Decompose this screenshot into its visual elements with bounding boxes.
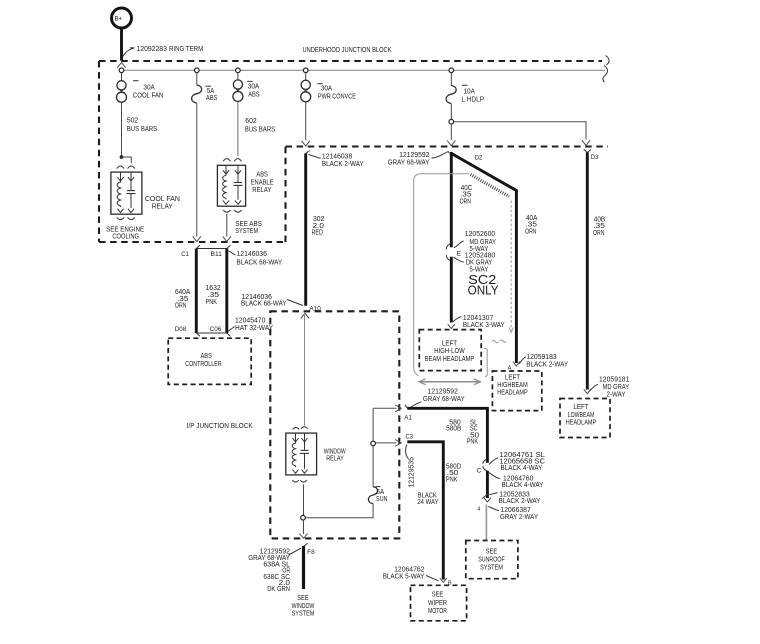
wire 502 bus to relay: [121, 102, 123, 155]
svg-text:4: 4: [477, 506, 480, 512]
wire branch to relay second pin: [122, 157, 132, 163]
wire 638A DK GRN: [302, 546, 305, 589]
svg-text:B+: B+: [115, 17, 123, 23]
arrow into lowbeam headlamp (40B): [584, 389, 591, 394]
svg-text:BLACK 68-WAY: BLACK 68-WAY: [241, 301, 287, 308]
connector C break: [477, 459, 488, 474]
wire L HDLP to node: [450, 104, 452, 120]
svg-text:5A: 5A: [207, 88, 215, 95]
label BLACK 24 WAY: [417, 492, 438, 505]
svg-text:PWR CONVCE: PWR CONVCE: [318, 93, 356, 100]
arrow entering I/P junction block A10: [301, 313, 309, 318]
svg-text:COOLING: COOLING: [112, 233, 139, 240]
hatch band SC2 harness: [471, 175, 510, 197]
svg-text:12064762: 12064762: [394, 567, 424, 574]
svg-text:RELAY: RELAY: [152, 201, 173, 210]
svg-text:GRAY 68-WAY: GRAY 68-WAY: [423, 396, 465, 403]
svg-text:30A: 30A: [321, 85, 333, 92]
svg-text:12052600: 12052600: [465, 231, 495, 238]
svg-text:302: 302: [313, 216, 324, 223]
arrow into junction block from B+: [117, 63, 125, 68]
svg-text:12059183: 12059183: [526, 354, 556, 361]
label 12129592 GRAY 68-WAY (D2): [388, 152, 449, 167]
svg-text:30A: 30A: [143, 85, 155, 92]
svg-text:B11: B11: [211, 251, 223, 258]
label 640A .35 ORN: [175, 289, 190, 310]
fuse 30A PWR CONVCE: [301, 73, 356, 102]
svg-text:C1: C1: [181, 251, 189, 258]
svg-text:SYSTEM: SYSTEM: [235, 228, 258, 235]
wire breaker to node: [372, 446, 374, 487]
wire 5A ABS down to C1: [196, 103, 198, 237]
svg-text:D2: D2: [475, 154, 483, 161]
wire ABS relay pin to B11: [226, 214, 228, 237]
svg-text:LEFT: LEFT: [442, 340, 458, 347]
SC2 thin loop top: [414, 174, 470, 376]
svg-text:SEE: SEE: [486, 549, 498, 556]
svg-text:SEE ENGINE: SEE ENGINE: [106, 226, 144, 233]
label SC2 ONLY: [468, 273, 500, 298]
svg-text:MOTOR: MOTOR: [428, 608, 447, 615]
wire node to sun breaker: [305, 504, 373, 518]
label SEE WINDOW SYSTEM: [292, 595, 315, 618]
node cool fan relay branch: [120, 155, 124, 159]
svg-text:SEE ABS: SEE ABS: [235, 221, 262, 228]
wire 40C lower: [450, 257, 453, 323]
node bus tap L hdlp: [449, 68, 454, 73]
svg-text:COOL FAN: COOL FAN: [133, 92, 163, 99]
svg-text:12129592: 12129592: [428, 388, 458, 395]
svg-text:GRAY 2-WAY: GRAY 2-WAY: [500, 514, 538, 521]
svg-text:ABS: ABS: [248, 91, 260, 98]
circuit breaker 5A ABS: [192, 73, 218, 103]
label 12129592 GRAY 68-WAY (A1): [410, 388, 465, 407]
labels 12052600 MD GRAY 5-WAY / 12052480 DK GRAY 5-WAY: [454, 231, 497, 273]
label 12059181 MD GRAY 2-WAY: [589, 377, 630, 399]
label 1632 .35 PNK: [206, 285, 221, 306]
arrow into high-low beam headlamp: [448, 324, 455, 329]
arrow into wiper motor: [440, 578, 447, 582]
svg-text:BLACK 2-WAY: BLACK 2-WAY: [526, 362, 568, 369]
svg-text:HIGHBEAM: HIGHBEAM: [497, 382, 528, 389]
svg-text:D3: D3: [591, 154, 599, 161]
SEE SUNROOF SYSTEM box: [466, 541, 518, 579]
svg-text:PNK: PNK: [206, 299, 218, 306]
node bus tap 5A abs: [195, 68, 200, 73]
label 12146036 BLACK 68-WAY (to A10 wire): [241, 294, 303, 307]
svg-text:E: E: [457, 251, 462, 258]
label 12064762 BLACK 5-WAY: [383, 567, 439, 581]
LEFT HIGHBEAM HEADLAMP box: [492, 371, 541, 411]
svg-text:12045470: 12045470: [235, 318, 265, 325]
svg-text:C: C: [477, 467, 482, 474]
svg-text:I/P JUNCTION BLOCK: I/P JUNCTION BLOCK: [187, 423, 253, 430]
relay WINDOW RELAY: [286, 433, 317, 475]
node headlamp feed split: [449, 119, 454, 124]
svg-text:580B: 580B: [446, 426, 461, 433]
relay COOL FAN RELAY: [111, 172, 142, 214]
I/P junction block dashed outline: [270, 311, 399, 538]
label 580D .50 PNK: [446, 463, 461, 483]
labels 12064760 BLACK 4-WAY: [489, 473, 544, 490]
arrow exit I/P block F8: [299, 534, 307, 539]
svg-text:12059181: 12059181: [599, 377, 629, 384]
svg-text:CONTROLLER: CONTROLLER: [185, 361, 221, 368]
fuse 30A COOL FAN: [117, 73, 164, 103]
svg-text:ENABLE: ENABLE: [251, 179, 274, 186]
label 580 SL 580B SC .50 PNK: [446, 419, 479, 445]
wire 640A to ABS controller: [195, 249, 198, 334]
label 12059183 BLACK 2-WAY: [519, 354, 569, 368]
wire to 4-way junction: [486, 471, 489, 498]
svg-text:BUS BARS: BUS BARS: [245, 127, 276, 134]
fuse 30A ABS: [233, 73, 260, 102]
svg-text:12092283: 12092283: [137, 46, 167, 53]
relay ABS ENABLE RELAY: [217, 165, 245, 206]
label 12146036 BLACK 68-WAY (top): [228, 251, 282, 267]
label 502 BUS BARS: [127, 118, 158, 134]
break marks SC2: [492, 340, 506, 343]
wire 602 bus to ABS relay: [237, 102, 239, 157]
svg-text:SEE: SEE: [297, 595, 309, 602]
label COOL FAN RELAY: [145, 194, 180, 211]
node bus tap 30A abs: [236, 68, 241, 73]
svg-text:A1: A1: [404, 415, 412, 422]
svg-text:12041307: 12041307: [463, 315, 493, 322]
svg-text:ORN: ORN: [525, 228, 536, 235]
svg-text:30A: 30A: [248, 84, 260, 91]
node window/sun split: [301, 515, 306, 520]
svg-text:10A: 10A: [464, 88, 476, 95]
relay cavity arcs bottom (abs enable): [223, 210, 241, 212]
svg-text:BUS BARS: BUS BARS: [127, 126, 158, 133]
SC2 gray dashed drop: [509, 201, 513, 333]
connector bracket D08-C06: [175, 326, 231, 336]
svg-text:WINDOW: WINDOW: [324, 448, 346, 455]
svg-text:5A: 5A: [377, 489, 385, 496]
circuit breaker 5A SUN: [368, 487, 387, 504]
svg-text:BLACK 4-WAY: BLACK 4-WAY: [502, 482, 544, 489]
svg-text:SEE: SEE: [432, 592, 444, 599]
svg-text:WIPER: WIPER: [428, 600, 447, 607]
battery terminal B+: [112, 8, 132, 28]
svg-text:UNDERHOOD JUNCTION BLOCK: UNDERHOOD JUNCTION BLOCK: [303, 47, 392, 54]
tick + leader at F8 wire: [289, 543, 308, 555]
label 302 2.0 RED: [312, 216, 325, 237]
svg-text:SYSTEM: SYSTEM: [480, 564, 503, 571]
wire window relay to node: [303, 485, 305, 516]
svg-text:HEADLAMP: HEADLAMP: [566, 420, 597, 427]
wire exit F8: [303, 520, 305, 534]
svg-text:SUN: SUN: [376, 496, 387, 503]
relay cavity arcs top (cool fan): [117, 166, 135, 169]
arrow into highbeam headlamp (40A): [513, 362, 520, 367]
arrow exit junction block D3: [582, 140, 590, 145]
label 40A .35 ORN: [525, 215, 538, 235]
svg-text:602: 602: [245, 118, 256, 125]
wire 40C upper (D2 drop): [450, 152, 453, 247]
wire 580D PNK to wiper motor: [407, 442, 443, 580]
svg-text:LEFT: LEFT: [573, 404, 589, 411]
label 40B .35 ORN: [593, 217, 605, 237]
svg-text:BLACK 4-WAY: BLACK 4-WAY: [501, 465, 543, 472]
svg-text:RING TERM: RING TERM: [169, 46, 203, 53]
label 12041307 BLACK 3-WAY: [453, 315, 505, 329]
label 12146038 BLACK 2-WAY: [306, 151, 364, 169]
svg-text:HIGH-LOW: HIGH-LOW: [434, 348, 465, 355]
svg-text:BLACK 68-WAY: BLACK 68-WAY: [237, 260, 283, 267]
connector E break: [446, 244, 462, 261]
wire pwr convce down inside block: [305, 103, 307, 141]
svg-text:BLACK 3-WAY: BLACK 3-WAY: [463, 322, 505, 329]
svg-text:SUNROOF: SUNROOF: [478, 557, 505, 564]
label 12092283 RING TERM: [123, 46, 204, 57]
svg-text:DK GRN: DK GRN: [267, 586, 290, 593]
wire B+ feed: [120, 29, 123, 61]
svg-text:C3: C3: [405, 433, 413, 440]
LEFT HIGH-LOW BEAM HEADLAMP box: [419, 330, 481, 371]
arrow exit at inner border (302 red): [302, 141, 310, 146]
svg-text:PNK: PNK: [446, 477, 458, 484]
arrow exit junction block D2: [447, 141, 455, 146]
svg-text:WINDOW: WINDOW: [292, 603, 315, 610]
underhood junction block dashed outline: [99, 61, 608, 242]
svg-text:GRAY 68-WAY: GRAY 68-WAY: [388, 159, 430, 166]
ABS CONTROLLER box: [168, 338, 251, 384]
wire 40B (D3 drop): [586, 152, 589, 389]
label 602 BUS BARS: [245, 118, 276, 133]
svg-text:F8: F8: [307, 549, 315, 556]
SC2 double arrow under headlamp box: [419, 379, 481, 385]
svg-text:RED: RED: [312, 230, 323, 237]
relay cavity arcs bottom (window): [292, 480, 306, 482]
wire 302 2.0 RED: [304, 153, 307, 305]
relay cavity arcs top (window): [293, 427, 308, 430]
wire node up to A1: [372, 408, 374, 441]
connector curl 12129535: [406, 445, 408, 459]
connector bracket C1-B11: [181, 245, 230, 258]
svg-text:502: 502: [127, 118, 138, 125]
node bus tap cool fan: [119, 68, 124, 73]
svg-text:ORN: ORN: [175, 303, 186, 310]
tick at D3 top: [584, 149, 591, 152]
svg-text:12129535: 12129535: [409, 457, 416, 487]
tick at A1 wire start: [405, 405, 408, 408]
svg-text:BLACK 2-WAY: BLACK 2-WAY: [322, 161, 364, 168]
svg-text:BEAM HEADLAMP: BEAM HEADLAMP: [425, 356, 475, 363]
label SEE ABS SYSTEM: [235, 221, 262, 235]
relay cavity arcs bottom (cool fan): [117, 217, 135, 219]
svg-text:D08: D08: [175, 326, 187, 333]
SEE WIPER MOTOR box: [411, 585, 467, 621]
svg-text:12129592: 12129592: [399, 152, 429, 159]
svg-text:L HDLP: L HDLP: [461, 96, 484, 103]
label SEE ENGINE COOLING: [106, 226, 144, 240]
labels 12052833 BLACK 2-WAY: [482, 491, 541, 504]
svg-text:12052480: 12052480: [465, 253, 495, 260]
svg-text:MD GRAY: MD GRAY: [603, 384, 630, 391]
svg-text:12146038: 12146038: [322, 154, 352, 161]
svg-text:2-WAY: 2-WAY: [607, 391, 626, 398]
arrow at 12052833 junction: [484, 498, 491, 502]
arrow exit I/P block at A1: [373, 405, 401, 412]
SC2 gray side link: [484, 348, 487, 376]
wire 580 PNK to connector C: [407, 408, 487, 462]
arrow exit I/P block at C3: [376, 440, 402, 447]
labels 12066387 GRAY 2-WAY: [488, 507, 538, 521]
svg-text:12146036: 12146036: [237, 251, 267, 258]
wire 1632 to ABS controller: [225, 249, 228, 334]
label ABS ENABLE RELAY: [251, 171, 274, 194]
label 12045470 HAT 32-WAY: [228, 318, 273, 333]
svg-text:HAT 32-WAY: HAT 32-WAY: [235, 325, 273, 332]
relay cavity arcs top (abs enable): [223, 159, 241, 162]
svg-text:BLACK 5-WAY: BLACK 5-WAY: [383, 574, 425, 581]
svg-text:LEFT: LEFT: [505, 374, 521, 381]
svg-text:ABS: ABS: [201, 353, 213, 360]
labels 12064761 SL 12065658 SC BLACK 4-WAY: [489, 452, 545, 472]
svg-text:SYSTEM: SYSTEM: [292, 611, 315, 618]
wire 40A diagonal branch: [450, 153, 516, 363]
circuit breaker 10A L HDLP: [446, 73, 484, 104]
svg-text:LOWBEAM: LOWBEAM: [568, 412, 595, 419]
svg-text:ABS: ABS: [256, 171, 268, 178]
svg-text:PNK: PNK: [467, 439, 479, 446]
svg-text:ORN: ORN: [593, 230, 604, 237]
svg-text:ORN: ORN: [460, 198, 471, 205]
node A1/C3 split: [371, 441, 376, 446]
node bus tap pwr convce: [303, 68, 308, 73]
svg-text:RELAY: RELAY: [326, 456, 344, 463]
wire node down to D2 exit: [450, 124, 452, 140]
wire node across to D3 drop: [454, 122, 586, 140]
bus bar: [122, 69, 606, 71]
svg-text:C06: C06: [210, 326, 222, 333]
wire A10 feed inside I/P block: [304, 312, 306, 426]
bus continuation squiggle: [603, 56, 609, 83]
arrow exit junction block at C1: [193, 236, 201, 241]
LEFT LOWBEAM HEADLAMP box: [560, 399, 610, 438]
svg-text:RELAY: RELAY: [252, 187, 271, 194]
svg-text:24 WAY: 24 WAY: [417, 499, 438, 506]
gray wire to sunroof: [485, 505, 487, 541]
svg-text:ABS: ABS: [206, 95, 218, 102]
arrow exit junction block at B11: [223, 236, 231, 241]
label WINDOW RELAY: [324, 448, 346, 462]
svg-text:BLACK 2-WAY: BLACK 2-WAY: [499, 498, 541, 505]
svg-text:ONLY: ONLY: [468, 284, 500, 298]
svg-text:HEADLAMP: HEADLAMP: [497, 389, 528, 396]
label 12129592 GRAY 68-WAY 638A SL OR 638C SC 2.0 DK GRN: [248, 549, 290, 594]
label 40C .35 ORN: [460, 185, 473, 205]
